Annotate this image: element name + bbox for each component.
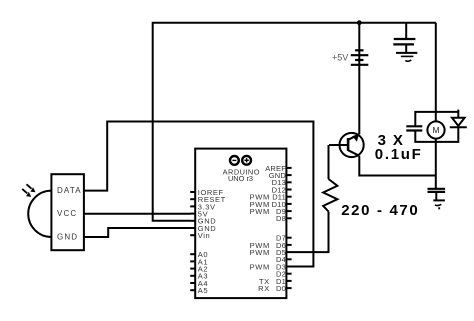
svg-text:D8: D8 (276, 214, 286, 223)
svg-text:PWM: PWM (250, 262, 270, 271)
svg-text:DATA: DATA (57, 186, 82, 195)
svg-text:D0: D0 (276, 284, 286, 293)
svg-text:UNO r3: UNO r3 (228, 174, 253, 183)
svg-text:PWM: PWM (250, 207, 270, 216)
svg-text:220 - 470: 220 - 470 (341, 202, 419, 219)
svg-text:VCC: VCC (57, 209, 77, 218)
svg-text:RX: RX (258, 284, 270, 293)
svg-text:+5V: +5V (332, 53, 348, 63)
svg-text:PWM: PWM (250, 248, 270, 257)
svg-text:M: M (433, 125, 440, 135)
svg-text:GND: GND (57, 232, 78, 241)
svg-text:A5: A5 (198, 286, 208, 295)
svg-text:Vin: Vin (198, 231, 211, 240)
svg-text:0.1uF: 0.1uF (375, 146, 423, 163)
